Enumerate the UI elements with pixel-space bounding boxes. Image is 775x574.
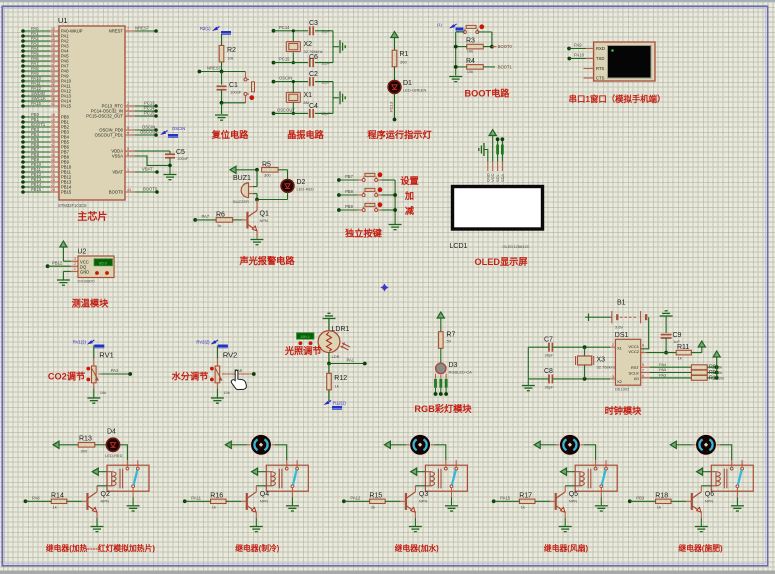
svg-text:测温模块: 测温模块 — [72, 298, 110, 309]
svg-text:Q3: Q3 — [419, 491, 428, 498]
svg-text:27: 27 — [51, 183, 55, 187]
motor relay 5 — [692, 444, 720, 446]
wire VCC2 to R11 — [641, 352, 647, 354]
wire BOOT button right — [478, 31, 492, 33]
capacitor C5 — [169, 151, 171, 154]
wire R4 leads — [456, 66, 467, 68]
svg-text:PB12: PB12 — [52, 261, 63, 266]
svg-text:主芯片: 主芯片 — [77, 210, 107, 223]
relay 3 — [425, 460, 467, 505]
node PB9 — [337, 208, 341, 212]
chip U1 NRST pin & wire — [125, 30, 135, 32]
svg-text:PB15: PB15 — [61, 190, 72, 195]
svg-text:29: 29 — [51, 67, 55, 71]
svg-text:22: 22 — [51, 168, 55, 172]
svg-text:R1: R1 — [400, 51, 409, 58]
wire C3 to rail — [315, 30, 333, 32]
node PB7 — [337, 178, 341, 182]
ground relay 1 contact — [127, 505, 140, 507]
svg-text:1k: 1k — [371, 505, 375, 510]
resistor R16 — [211, 499, 227, 503]
svg-text:PA11: PA11 — [191, 496, 201, 501]
terminal green dot — [611, 49, 614, 52]
wire PA15 to R17 — [492, 499, 496, 503]
svg-text:R2(1): R2(1) — [200, 26, 211, 31]
svg-text:时钟模块: 时钟模块 — [605, 405, 643, 416]
svg-text:RTS: RTS — [596, 66, 605, 71]
button key 2 — [362, 194, 365, 197]
wire key 2 to bus — [378, 194, 382, 196]
wire Q2 collector to coil — [96, 486, 98, 492]
wire R15 to Q3 base — [385, 500, 400, 502]
svg-text:40: 40 — [51, 133, 55, 137]
capacitor C4 — [309, 109, 311, 118]
svg-text:PA8: PA8 — [32, 496, 40, 501]
svg-text:Q5: Q5 — [569, 491, 578, 498]
wire C6 to rail — [315, 62, 333, 64]
wire motor to relay contact 4 — [584, 445, 596, 460]
rail clock left — [527, 347, 529, 385]
ground relay 2 contact — [286, 505, 299, 507]
D3 leg nodes — [434, 392, 438, 396]
ground Q5 — [559, 526, 572, 528]
svg-text:300: 300 — [400, 60, 407, 65]
resistor R2 — [219, 45, 224, 62]
LDR red dots — [299, 341, 303, 345]
power arrow relay 1 coil — [92, 468, 98, 475]
svg-text:PA15: PA15 — [61, 104, 72, 109]
svg-text:D2: D2 — [297, 179, 306, 186]
svg-text:6: 6 — [127, 131, 129, 135]
svg-text:PA3: PA3 — [659, 373, 667, 378]
svg-text:85.0: 85.0 — [99, 260, 108, 265]
rail right top crystal group — [332, 31, 334, 63]
svg-text:VCC2: VCC2 — [628, 349, 639, 354]
svg-text:LED-GREEN: LED-GREEN — [403, 88, 426, 93]
wire gnd to C9 — [665, 316, 667, 333]
rail pullups — [716, 357, 718, 378]
svg-text:PA4: PA4 — [659, 362, 667, 367]
ground Q2 — [91, 526, 104, 528]
svg-text:2: 2 — [74, 262, 76, 266]
wire Q4 collector to coil — [255, 486, 257, 492]
crystal X2 — [292, 31, 294, 41]
chip U1 body — [59, 26, 125, 200]
svg-text:R12: R12 — [334, 375, 347, 382]
wire R18 to Q6 base — [671, 500, 686, 502]
svg-text:28: 28 — [51, 188, 55, 192]
svg-text:1k: 1k — [678, 356, 682, 361]
svg-text:4: 4 — [127, 112, 129, 116]
svg-text:PC15-OSC32_OUT: PC15-OSC32_OUT — [86, 114, 123, 119]
chip U1 VBAT pin & wire — [125, 171, 135, 173]
node PB8 — [337, 193, 341, 197]
wire power to RV2 — [216, 346, 218, 359]
power arrow heater — [53, 441, 59, 448]
svg-text:100nF: 100nF — [177, 156, 189, 161]
svg-text:10k: 10k — [467, 69, 473, 74]
wire PA8 to R14 — [24, 499, 28, 503]
svg-text:14: 14 — [51, 47, 55, 51]
power arrow relay 5 coil — [697, 468, 703, 475]
svg-text:R4: R4 — [466, 58, 475, 65]
svg-text:PC13: PC13 — [389, 101, 394, 112]
crystal X3 — [584, 347, 586, 356]
wire RV1 wiper — [98, 373, 100, 375]
wire R3 leads — [456, 46, 467, 48]
resistor R18 — [656, 499, 672, 503]
capacitor C8 — [548, 374, 550, 383]
svg-text:设置: 设置 — [400, 175, 418, 186]
ground OLED — [483, 143, 485, 156]
power arrow relay 4 coil — [561, 468, 567, 475]
svg-text:1k: 1k — [212, 505, 216, 510]
wire D4 to relay contact — [120, 445, 128, 460]
red dot key 2 — [378, 187, 383, 192]
svg-text:17: 17 — [51, 62, 55, 66]
U2 display — [94, 259, 113, 266]
chip U1 PC14 pin — [125, 110, 135, 112]
svg-text:7: 7 — [127, 27, 129, 31]
svg-text:Q1: Q1 — [260, 211, 269, 218]
terminal RTS stub — [584, 68, 594, 70]
ground Q1 — [251, 239, 264, 241]
ground relay 3 contact — [445, 505, 458, 507]
resistor R9 — [691, 370, 707, 375]
wire D2 down — [287, 192, 289, 199]
svg-text:PA15: PA15 — [31, 101, 42, 106]
svg-text:8: 8 — [642, 344, 644, 348]
resistor R6 — [216, 218, 233, 223]
svg-text:(1): (1) — [437, 22, 443, 27]
svg-text:OLED显示屏: OLED显示屏 — [474, 257, 527, 267]
wire gnd to LDR — [328, 319, 330, 331]
svg-text:PB15: PB15 — [31, 187, 42, 192]
svg-text:减: 减 — [405, 205, 415, 216]
wire R12 down — [328, 390, 330, 401]
button key 3 — [362, 209, 365, 212]
capacitor C2 — [309, 77, 311, 86]
svg-text:继电器(制冷): 继电器(制冷) — [235, 543, 280, 553]
capacitor C6 — [309, 58, 311, 67]
ground U2 — [57, 279, 70, 281]
svg-text:D3: D3 — [449, 362, 458, 369]
svg-text:串口1窗口（模拟手机端）: 串口1窗口（模拟手机端） — [569, 94, 666, 104]
OLED display body — [453, 187, 543, 230]
capacitor C1 — [221, 72, 223, 85]
capacitor C3 — [309, 26, 311, 35]
motor relay 3 — [406, 444, 434, 446]
power arrow pullups — [713, 351, 720, 357]
svg-text:11: 11 — [51, 32, 55, 36]
transistor Q3 — [405, 493, 407, 510]
svg-text:41: 41 — [51, 138, 55, 142]
wire key 3 to bus — [378, 209, 382, 211]
svg-text:PA12: PA12 — [350, 496, 361, 501]
svg-text:10k: 10k — [100, 390, 106, 395]
svg-text:31: 31 — [51, 77, 55, 81]
svg-text:30: 30 — [51, 72, 55, 76]
svg-text:X2: X2 — [617, 379, 623, 384]
svg-text:VBAT: VBAT — [142, 167, 153, 172]
svg-text:OSCOUT: OSCOUT — [140, 130, 158, 135]
svg-text:X1: X1 — [617, 345, 623, 350]
U2 power arrow — [60, 241, 67, 247]
wire key 1 to bus — [378, 179, 382, 181]
resistor R12 — [328, 364, 330, 374]
svg-text:1k: 1k — [217, 223, 221, 228]
svg-text:BOOT1: BOOT1 — [498, 64, 513, 69]
svg-text:3: 3 — [127, 107, 129, 111]
svg-text:PA7: PA7 — [202, 214, 210, 219]
svg-text:I/O: I/O — [634, 376, 639, 381]
svg-text:300: 300 — [81, 449, 88, 454]
resistor R3 — [467, 44, 484, 49]
svg-text:C2: C2 — [309, 71, 318, 78]
svg-text:1: 1 — [74, 267, 76, 271]
svg-text:12: 12 — [51, 37, 55, 41]
svg-text:BUZZER: BUZZER — [233, 199, 249, 204]
chip U1 OSCOUT pin — [125, 134, 135, 136]
svg-text:9: 9 — [127, 147, 129, 151]
RV2 red dots — [210, 367, 214, 371]
svg-text:7: 7 — [642, 369, 644, 373]
wire motor to relay contact 3 — [434, 445, 446, 460]
D3 legs — [435, 374, 437, 379]
LED D2 — [281, 180, 294, 193]
wire power to RV1 — [93, 346, 95, 359]
svg-text:CO2调节: CO2调节 — [48, 371, 85, 382]
wire PA12 to R15 — [342, 499, 346, 503]
svg-text:B1: B1 — [617, 300, 626, 307]
svg-text:C1: C1 — [229, 82, 238, 89]
svg-text:独立按键: 独立按键 — [344, 228, 383, 239]
red dot key 1 — [378, 172, 383, 177]
wire Q4 emitter to ground — [255, 512, 257, 518]
wire Q1 emitter to ground — [256, 231, 258, 239]
OLED wire tag SDA — [501, 145, 504, 155]
svg-text:34: 34 — [51, 87, 55, 91]
ground relay 5 contact — [731, 505, 744, 507]
svg-text:30pF: 30pF — [545, 353, 555, 358]
wire R16 to Q4 base — [226, 500, 241, 502]
D3 wire tags — [434, 379, 437, 388]
svg-text:C3: C3 — [309, 20, 318, 27]
svg-text:PC15: PC15 — [279, 57, 290, 62]
svg-text:D1: D1 — [403, 80, 412, 87]
resistor R17 — [519, 499, 535, 503]
chip U1 port-A pins & wires — [21, 26, 83, 109]
ground Q3 — [409, 526, 422, 528]
svg-text:继电器(风扇): 继电器(风扇) — [544, 543, 589, 553]
wire C7 left rail — [528, 346, 549, 348]
svg-text:NREST: NREST — [135, 26, 150, 31]
svg-text:5: 5 — [642, 363, 644, 367]
svg-text:RV1: RV1 — [99, 351, 113, 360]
wire U2 VCC — [63, 260, 70, 262]
RGB power arrow — [437, 312, 444, 318]
svg-text:41: 41 — [51, 102, 55, 106]
svg-text:OSCOUT: OSCOUT — [277, 107, 295, 112]
svg-text:R17: R17 — [519, 493, 532, 500]
wire BOOT button left rail — [456, 31, 465, 33]
chip U1 PC15 pin — [125, 115, 135, 117]
wire motor to relay contact 2 — [275, 445, 287, 460]
power arrow motor 3 — [384, 441, 390, 448]
crystal X1 — [292, 82, 294, 92]
svg-text:继电器(加热----红灯模拟加热片): 继电器(加热----红灯模拟加热片) — [46, 543, 156, 553]
resistor R14 — [51, 499, 67, 503]
resistor R11 — [676, 350, 691, 355]
svg-text:继电器(加水): 继电器(加水) — [395, 543, 440, 553]
resistor R8 — [691, 365, 707, 370]
ground RV2 — [211, 397, 224, 399]
wire C9 to VCC2 node — [665, 338, 667, 353]
D3 leg wires — [435, 388, 437, 394]
wire R17 to Q5 base — [535, 500, 550, 502]
resistor R4 — [467, 65, 484, 70]
svg-text:2: 2 — [127, 102, 129, 106]
svg-text:SCLK: SCLK — [629, 371, 640, 376]
button reset — [245, 72, 247, 79]
OLED SDA wire — [501, 139, 503, 161]
svg-text:30pF: 30pF — [545, 385, 555, 390]
svg-text:C8: C8 — [544, 368, 553, 375]
wire RV2 wiper — [222, 373, 224, 375]
svg-text:PB7: PB7 — [345, 174, 354, 179]
svg-text:50: 50 — [447, 339, 452, 344]
svg-text:Q2: Q2 — [101, 491, 110, 498]
svg-text:21: 21 — [51, 163, 55, 167]
svg-text:RST: RST — [631, 365, 640, 370]
svg-text:NPN: NPN — [705, 499, 714, 504]
svg-text:20: 20 — [51, 123, 55, 127]
U2 red dots — [95, 271, 99, 275]
wire C8 left rail — [528, 378, 549, 380]
net OSCIN wire — [272, 80, 276, 84]
transistor Q5 — [555, 493, 557, 510]
wire C1 bottom node — [222, 102, 246, 104]
svg-text:DS1302: DS1302 — [615, 387, 630, 392]
svg-text:DS18B20: DS18B20 — [78, 279, 96, 284]
svg-text:R5: R5 — [262, 162, 271, 169]
svg-text:NREST: NREST — [207, 66, 222, 71]
svg-text:13: 13 — [51, 42, 55, 46]
RGB LED D3 — [436, 363, 446, 373]
terminal body — [594, 42, 655, 81]
wire DS1 pin row 1 — [641, 366, 650, 368]
wire Q5 emitter to ground — [564, 512, 566, 518]
svg-text:25: 25 — [51, 173, 55, 177]
wire power to R2 — [221, 34, 223, 46]
wire U2 GND — [63, 270, 70, 272]
wire C8 to X2 pin — [552, 378, 610, 380]
svg-text:NPN: NPN — [419, 499, 428, 504]
svg-text:X1: X1 — [304, 92, 313, 99]
svg-text:RGB彩灯模块: RGB彩灯模块 — [414, 403, 472, 414]
svg-text:10k: 10k — [467, 49, 473, 54]
wire C2 to rail — [315, 81, 333, 83]
svg-text:8: 8 — [127, 152, 129, 156]
resistor R5 — [262, 168, 279, 173]
transistor Q2 — [86, 493, 88, 510]
svg-text:PB3: PB3 — [636, 496, 645, 501]
chip U2 body — [78, 256, 114, 278]
svg-text:LED-RED: LED-RED — [297, 187, 315, 192]
svg-text:100nF: 100nF — [230, 90, 242, 95]
wire R14 to Q2 base — [67, 500, 82, 502]
svg-text:RGBLED-CA: RGBLED-CA — [449, 370, 473, 375]
svg-text:OSCIN: OSCIN — [172, 126, 185, 131]
wire R6 to Q1 base — [233, 219, 242, 221]
power arrow indicator — [391, 32, 398, 38]
svg-text:10k: 10k — [718, 377, 724, 381]
button BOOT — [463, 31, 466, 34]
OLED GND wire — [485, 150, 488, 162]
svg-text:R7: R7 — [446, 332, 455, 339]
svg-text:程序运行指示灯: 程序运行指示灯 — [367, 129, 432, 140]
ground below C5 — [164, 174, 177, 176]
red dot key 3 — [378, 202, 383, 207]
wire battery to VCC1 — [641, 317, 649, 349]
capacitor C9 — [661, 334, 672, 336]
keys bus wire — [394, 180, 396, 224]
cursor & net label RV2 — [196, 339, 228, 348]
svg-text:199.1: 199.1 — [300, 334, 311, 339]
wire to key 3 — [339, 209, 358, 211]
wire RV1 to ground — [93, 383, 95, 389]
svg-text:300: 300 — [264, 173, 271, 178]
wire Q6 collector to coil — [700, 486, 702, 492]
terminal TXD wire — [567, 57, 571, 61]
svg-text:X2: X2 — [304, 41, 313, 48]
svg-text:Q4: Q4 — [260, 491, 269, 498]
wire DS1 pin row 3 — [641, 377, 650, 379]
wire Q5 collector to coil — [564, 486, 566, 492]
wire R2 to NRST node — [221, 62, 223, 72]
ground relay 4 contact — [595, 505, 608, 507]
svg-text:Q6: Q6 — [705, 491, 714, 498]
bottom window strip — [0, 571, 775, 574]
svg-text:U1: U1 — [58, 16, 68, 25]
svg-text:R6: R6 — [216, 212, 225, 219]
svg-text:1: 1 — [642, 349, 644, 353]
red dot on reset button — [249, 95, 254, 100]
svg-text:C6: C6 — [309, 54, 318, 61]
svg-text:1k: 1k — [657, 505, 661, 510]
svg-text:39: 39 — [51, 128, 55, 132]
svg-text:PB8: PB8 — [345, 189, 354, 194]
potentiometer RV2 — [215, 366, 220, 383]
svg-text:NPN: NPN — [260, 218, 269, 223]
svg-text:1k: 1k — [521, 505, 525, 510]
svg-text:10k: 10k — [227, 56, 233, 61]
power arrow motor 4 — [534, 441, 540, 448]
svg-text:LDR: LDR — [332, 354, 340, 359]
svg-text:继电器(施肥): 继电器(施肥) — [678, 543, 723, 553]
svg-text:PA5: PA5 — [659, 367, 667, 372]
svg-text:RXD: RXD — [596, 46, 605, 51]
svg-text:PA9: PA9 — [574, 43, 582, 48]
svg-text:OSCIN: OSCIN — [279, 76, 292, 81]
svg-text:R14: R14 — [51, 493, 64, 500]
svg-text:SDA: SDA — [500, 173, 505, 182]
OLED pin stubs & labels — [485, 162, 505, 183]
svg-text:声光报警电路: 声光报警电路 — [238, 255, 295, 266]
svg-text:15: 15 — [51, 52, 55, 56]
power arrow motor 2 — [225, 441, 231, 448]
svg-text:VBAT: VBAT — [112, 170, 123, 175]
